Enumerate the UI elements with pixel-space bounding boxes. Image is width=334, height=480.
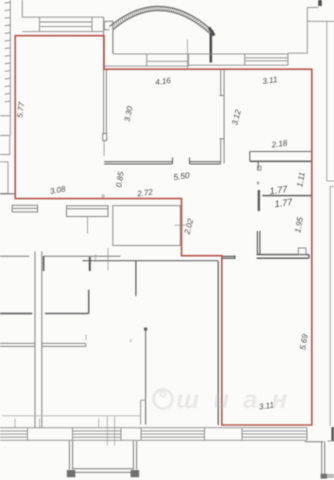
bathroom left wall jamb square: [258, 166, 261, 170]
balcony left foot step: [104, 21, 113, 54]
neighbour interior stub: [135, 260, 137, 296]
balcony feet: [67, 470, 76, 477]
neighbour centre double wall: [35, 252, 42, 428]
partition foot lines: [141, 400, 146, 424]
neighbour window box upper-left A: [0, 136, 10, 155]
living room bottom wall left segment: [104, 158, 172, 164]
svg-text:шиaн: шиaн: [176, 384, 301, 414]
balcony right foot: [209, 28, 214, 36]
shelf wall 2.18 niche: [250, 152, 312, 170]
wall cross tick: [95, 255, 97, 263]
balcony floor line: [112, 21, 114, 54]
exterior wall top right of balcony: [288, 8, 334, 54]
dimension line 2.02: [175, 224, 187, 226]
partition top cap: [144, 328, 147, 331]
balcony arc hatching: [114, 6, 212, 31]
right neighbour tick: [327, 180, 334, 182]
living room bottom wall right segment: [190, 158, 221, 164]
bottom band right dark bar: [331, 427, 334, 441]
tick below closet B: [87, 216, 89, 234]
faint dimension line bottom left: [2, 415, 141, 417]
bathroom door bar: [258, 190, 260, 211]
bottom band right short line: [328, 440, 334, 442]
right neighbour tick2: [330, 186, 334, 188]
neighbour closet band lower: [0, 343, 86, 346]
bottom right neighbour step: [305, 442, 334, 477]
top-left wall lines: [22, 0, 104, 32]
toilet left wall bar: [257, 231, 260, 255]
toilet bottom wall: [257, 255, 309, 259]
closet box A under hall: [12, 205, 37, 212]
neighbour wall band mid: [0, 313, 32, 315]
hall closet rectangle 2.02: [113, 206, 181, 246]
toilet door jamb right: [298, 248, 306, 255]
neighbour below: top wall outer line: [0, 255, 120, 257]
dimension ticks bottom left: [15, 416, 115, 446]
dimension tick on top window: [186, 40, 188, 69]
wall between bathrooms 1.77/1.77: [262, 195, 312, 197]
window band below balcony (room 3.30 exterior wall): [104, 53, 288, 66]
right neighbour wall lower: [329, 187, 331, 427]
bottom window band: [0, 428, 307, 441]
door jamb left room: [103, 134, 107, 141]
balcony below (neighbour): [69, 441, 136, 472]
closet box B under hall: [67, 206, 109, 217]
kitchen top wall stub: [222, 255, 235, 259]
svg-text:o: o: [102, 193, 105, 199]
neighbour L closet: [45, 290, 89, 314]
watermark logo circle: [154, 390, 173, 409]
neighbour partition wall lower: [145, 329, 147, 425]
neighbour window box upper-left B: [0, 162, 8, 194]
bottom right foot: [321, 474, 327, 479]
closet tick: [85, 335, 87, 340]
left exterior hatched wall: [0, 0, 10, 136]
dark tick top right: [318, 0, 322, 6]
right neighbour wall upper: [326, 21, 328, 181]
neighbour wall stub: [89, 257, 91, 271]
red apartment outline: [15, 36, 312, 425]
balcony arc inner: [113, 10, 211, 34]
neighbour below: right wall: [217, 261, 219, 425]
door leaf left room: [103, 141, 105, 157]
bathroom hinge dash: [257, 182, 259, 185]
left wall bottom cap: [0, 193, 16, 195]
neighbour door jamb: [43, 256, 45, 271]
neighbour door tick: [107, 248, 109, 270]
wall between left room and room 3.30: [104, 17, 107, 133]
wall between room 3.30 and room 3.12: [220, 69, 225, 163]
window of left room (top wall): [40, 17, 93, 31]
neighbour below: top wall inner line: [83, 260, 219, 262]
balcony arc outer: [110, 6, 214, 31]
